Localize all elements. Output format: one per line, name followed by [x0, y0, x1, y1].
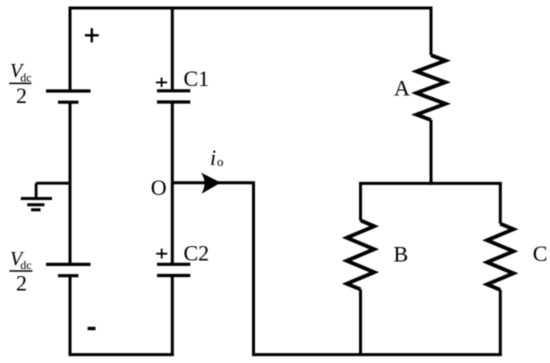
svg-text:C2: C2 — [184, 240, 210, 265]
label - polarity of V2 — [88, 327, 96, 330]
label Vdc/2 (top source value) — [9, 60, 32, 108]
wire mid branch vertical bottom — [171, 276, 174, 357]
svg-text:B: B — [394, 242, 409, 267]
label C1 — [184, 66, 210, 91]
wire left vertical middle — [69, 104, 72, 264]
svg-text:i: i — [210, 145, 216, 170]
wire left vertical top — [69, 8, 72, 91]
svg-text:O: O — [151, 175, 167, 200]
svg-text:C: C — [533, 241, 548, 266]
wire mid branch vertical middle — [171, 102, 174, 264]
resistor C — [487, 224, 513, 290]
label + polarity of C2 — [156, 249, 167, 259]
wire left vertical bottom — [69, 277, 72, 356]
wire ground horizontal — [36, 182, 70, 185]
wire resistor A top lead — [430, 7, 433, 56]
battery V2 (bottom Vdc/2 source) — [46, 264, 91, 275]
label A — [394, 76, 410, 101]
wire bottom-right horizontal — [252, 353, 502, 356]
svg-text:2: 2 — [16, 271, 27, 296]
node O — [151, 175, 167, 200]
label + polarity of C1 — [156, 78, 167, 88]
wire resistor B bottom lead — [359, 289, 362, 356]
label C2 — [184, 240, 210, 265]
wire resistor A bottom lead — [430, 120, 433, 185]
wire resistor C top lead — [499, 183, 502, 223]
label C — [533, 241, 548, 266]
wire parallel-top horizontal — [359, 182, 502, 185]
wire resistor C bottom lead — [499, 290, 502, 356]
label B — [394, 242, 409, 267]
svg-text:A: A — [394, 76, 410, 101]
svg-text:2: 2 — [16, 83, 27, 108]
svg-text:o: o — [217, 154, 224, 169]
capacitor C1 — [157, 91, 190, 102]
label Vdc/2 (bottom source value) — [9, 248, 32, 296]
battery V1 (top Vdc/2 source) — [46, 91, 91, 102]
label + polarity of V1 — [85, 28, 99, 42]
current arrow io — [202, 174, 220, 193]
svg-text:C1: C1 — [184, 66, 210, 91]
wire resistor B top lead — [359, 183, 362, 220]
resistor B — [347, 220, 374, 289]
wire output vertical — [252, 183, 255, 356]
wire top horizontal — [69, 7, 433, 10]
capacitor C2 — [157, 264, 190, 275]
ground — [21, 183, 52, 210]
resistor A — [417, 55, 446, 120]
wire output horizontal from node O — [172, 181, 255, 184]
wire mid branch vertical top — [171, 8, 174, 91]
wire bottom-left horizontal — [69, 353, 174, 356]
label io — [210, 145, 224, 170]
